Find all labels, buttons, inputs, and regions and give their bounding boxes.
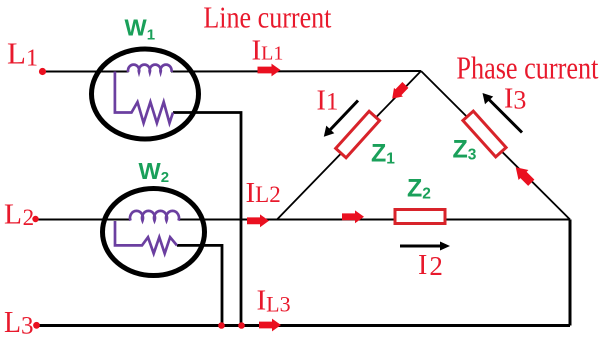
wire L3 line [36,324,570,327]
svg-text:Line current: Line current [203,0,331,35]
wire L1 line left segment [43,71,129,73]
current arrow IL3 on L3 wire [259,319,281,332]
arrow I1 direction (thin black) [324,101,358,137]
svg-text:Phase current: Phase current [456,50,598,86]
impedance Z1 body [336,111,380,158]
svg-text:2: 2 [23,205,34,230]
wire L2 line and delta bottom side [178,219,570,221]
current arrow I1 on delta left side (points down-left) [388,81,410,103]
current arrow on delta bottom side before Z2 [342,210,364,223]
svg-text:I2: I2 [418,250,443,281]
wattmeter W2 ellipse [103,189,205,276]
wattmeter W2 current coil [130,211,179,221]
wire right vertex down to L3 [569,220,572,326]
svg-text:IL3: IL3 [257,284,291,316]
svg-text:L1: L1 [7,36,38,72]
wattmeter W1 ellipse [92,49,199,139]
svg-text:Z1: Z1 [371,140,395,168]
wire W2 pressure coil to L3 [177,245,222,325]
wire W1 pressure coil to L3 [173,113,241,326]
impedance Z2 body [395,210,445,224]
node L1 terminal dot [39,68,46,75]
junction dot W1 pressure on L3 [238,322,245,329]
svg-text:I3: I3 [504,84,526,115]
current arrow I3 on delta right side (points up-left) [511,162,536,187]
wire delta left side (apex to left vertex) [277,71,421,220]
svg-text:L: L [4,304,21,339]
wire L1 line right segment [171,70,421,73]
svg-text:Z3: Z3 [453,136,477,164]
current arrow IL2 on L2 wire [247,214,269,227]
impedance Z3 body [463,111,506,157]
junction dot W2 pressure on L3 [218,322,225,329]
svg-text:L: L [4,199,22,230]
wattmeter W1 current coil [128,65,172,72]
wattmeter W2 pressure coil resistor and leads [115,221,177,254]
current arrow IL1 on L1 wire [258,64,281,77]
arrow I3 direction (thin black) [483,93,523,133]
node L3 terminal dot [33,322,40,329]
svg-text:W1: W1 [125,15,156,44]
svg-text:Z2: Z2 [407,175,431,203]
svg-text:3: 3 [21,313,34,340]
arrow I2 direction (thin black) [400,242,450,251]
svg-text:I1: I1 [317,85,339,116]
svg-text:IL2: IL2 [246,177,281,209]
svg-text:IL1: IL1 [252,34,284,66]
wire L2 line left segment [36,219,131,221]
node L2 terminal dot [32,216,38,222]
wire delta right side (apex to right vertex) [421,71,570,220]
svg-text:W2: W2 [139,158,170,186]
wattmeter W1 pressure coil resistor and leads [115,72,173,124]
